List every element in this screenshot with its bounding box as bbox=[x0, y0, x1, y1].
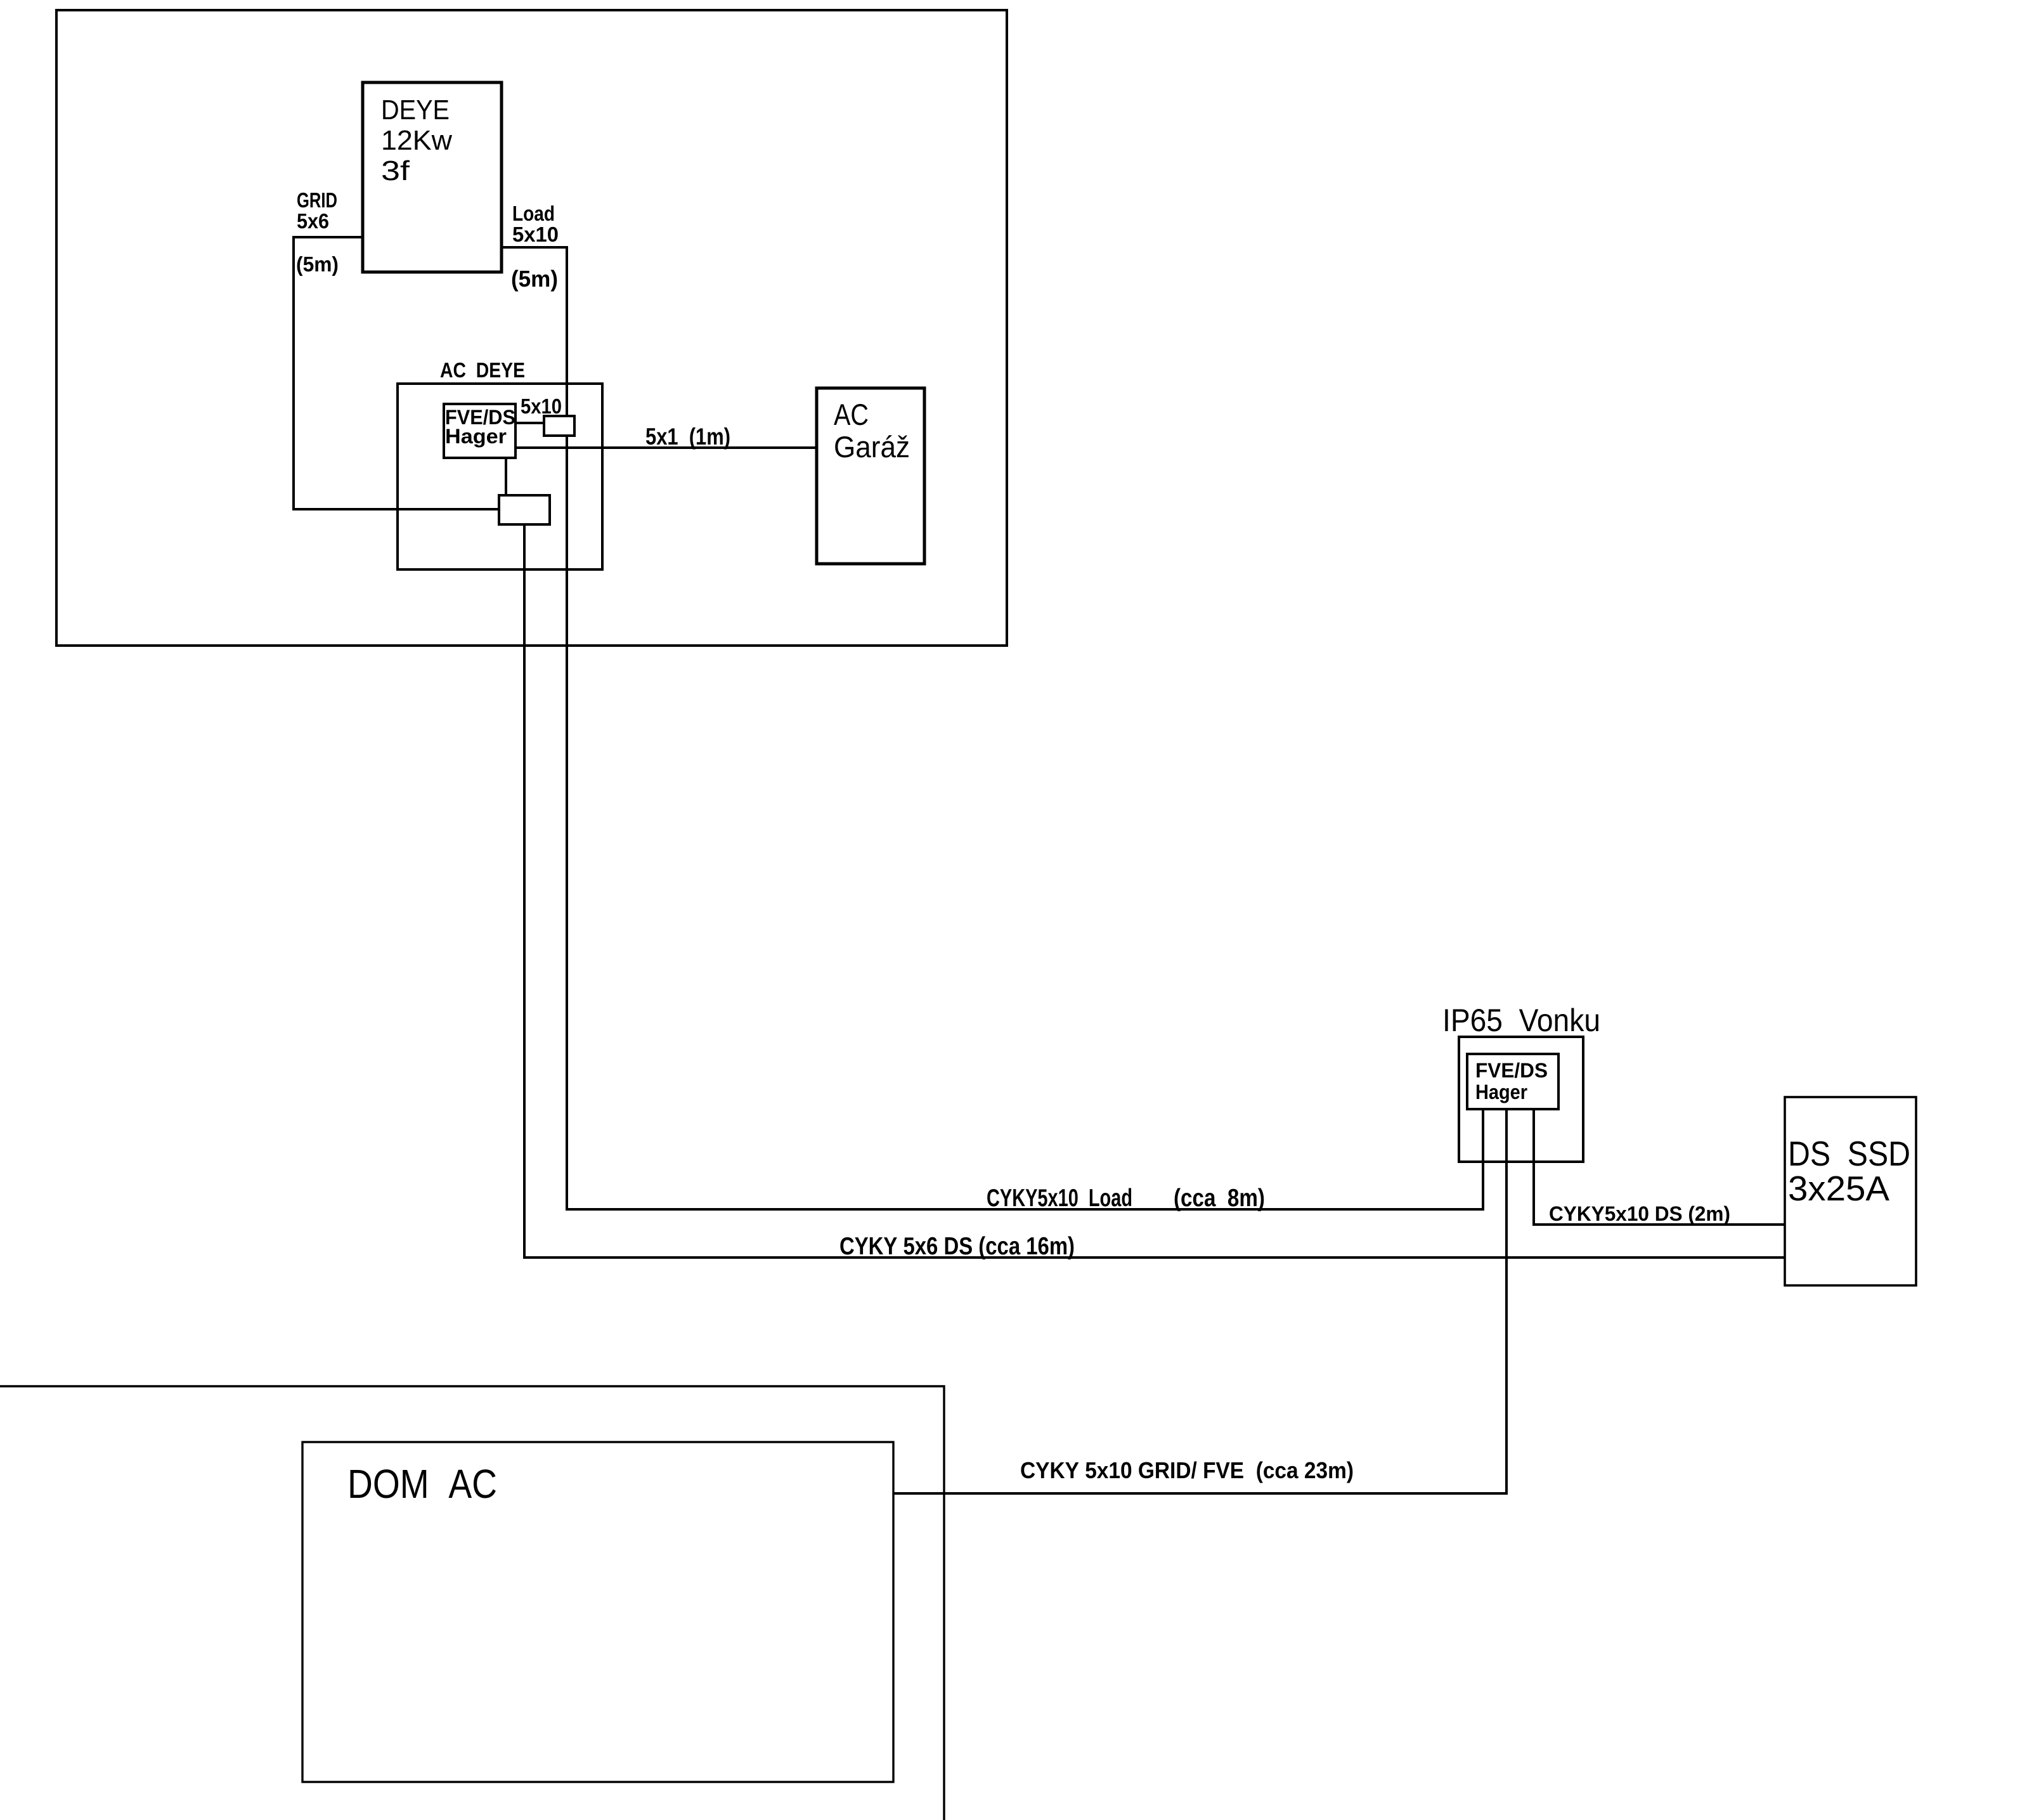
wire GRID: DEYE left to FVE/DS junction box bbox=[294, 237, 499, 509]
svg-text:Hager: Hager bbox=[445, 425, 507, 448]
svg-text:Garáž: Garáž bbox=[834, 430, 910, 464]
garage building outline bbox=[56, 10, 1007, 646]
enclosure IP65 Vonku bbox=[1459, 1037, 1583, 1162]
svg-text:DOM AC: DOM AC bbox=[347, 1461, 497, 1507]
wire CYKY 5x10 GRID/FVE to DOM AC bbox=[893, 1109, 1506, 1493]
wire CYKY5x10 DS (2m) to DS SSD bbox=[1534, 1109, 1785, 1225]
svg-text:DS SSD: DS SSD bbox=[1788, 1134, 1910, 1173]
svg-text:FVE/DS: FVE/DS bbox=[1475, 1059, 1548, 1082]
svg-text:Hager: Hager bbox=[1475, 1081, 1527, 1103]
svg-text:Load: Load bbox=[512, 202, 555, 225]
svg-text:CYKY 5x10 GRID/ FVE (cca 23m): CYKY 5x10 GRID/ FVE (cca 23m) bbox=[1020, 1457, 1354, 1483]
svg-text:3f: 3f bbox=[381, 155, 410, 186]
svg-text:IP65 Vonku: IP65 Vonku bbox=[1442, 1003, 1600, 1038]
svg-text:AC DEYE: AC DEYE bbox=[440, 358, 525, 382]
svg-text:5x6: 5x6 bbox=[297, 209, 329, 233]
terminal block upper bbox=[544, 416, 574, 436]
svg-text:12Kw: 12Kw bbox=[381, 125, 452, 156]
svg-text:GRID: GRID bbox=[297, 188, 337, 212]
wire Load 5x10: DEYE right down to CYKY5x10 Load run to IP65 bbox=[502, 247, 1483, 1209]
svg-text:5x1 (1m): 5x1 (1m) bbox=[645, 424, 730, 450]
svg-text:(5m): (5m) bbox=[511, 266, 558, 292]
terminal block lower bbox=[499, 495, 550, 524]
wire FVE/DS to terminal block bbox=[515, 422, 544, 424]
svg-text:(cca 8m): (cca 8m) bbox=[1174, 1185, 1265, 1212]
svg-text:DEYE: DEYE bbox=[381, 94, 450, 126]
svg-text:CYKY 5x6 DS (cca 16m): CYKY 5x6 DS (cca 16m) bbox=[839, 1233, 1075, 1260]
wire 5x1 to AC Garaz bbox=[515, 446, 817, 449]
breaker FVE/DS Hager (garage) bbox=[444, 404, 515, 458]
wire CYKY 5x6 DS to DS SSD bbox=[524, 524, 1785, 1258]
breaker FVE/DS Hager (outdoor) bbox=[1467, 1054, 1558, 1109]
svg-text:CYKY5x10 Load: CYKY5x10 Load bbox=[987, 1185, 1132, 1212]
panel AC Garaz bbox=[817, 388, 924, 564]
wire FVE/DS bottom to terminal block lower bbox=[505, 458, 507, 495]
enclosure AC DEYE bbox=[398, 384, 602, 569]
svg-text:(5m): (5m) bbox=[296, 252, 339, 276]
svg-text:3x25A: 3x25A bbox=[1788, 1169, 1889, 1208]
panel DOM AC bbox=[302, 1442, 893, 1782]
svg-text:AC: AC bbox=[834, 398, 869, 431]
svg-text:5x10: 5x10 bbox=[512, 223, 559, 246]
house building outline bbox=[0, 1386, 944, 1820]
svg-text:CYKY5x10 DS (2m): CYKY5x10 DS (2m) bbox=[1549, 1202, 1730, 1225]
inverter DEYE 12Kw 3f bbox=[363, 82, 502, 272]
meter box DS SSD 3x25A bbox=[1785, 1097, 1916, 1285]
svg-text:5x10: 5x10 bbox=[521, 394, 562, 418]
